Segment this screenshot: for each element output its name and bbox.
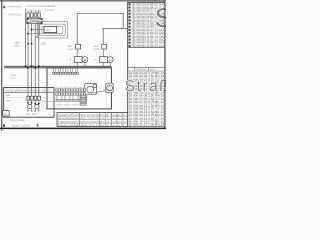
svg-text:GAA: GAA xyxy=(100,120,105,123)
PE rail box xyxy=(3,111,10,116)
svg-text:L1 L2 L3 N PE: L1 L2 L3 N PE xyxy=(26,5,45,8)
svg-text:1,2,3,N: 1,2,3,N xyxy=(45,9,54,12)
target label 1,2,3,N xyxy=(45,9,54,12)
svg-text:-6M1: -6M1 xyxy=(93,45,99,48)
margin mark xyxy=(3,124,5,127)
terminal comb strip xyxy=(53,68,79,75)
svg-text:-1W2: -1W2 xyxy=(40,43,47,46)
svg-text:er: er xyxy=(118,124,120,127)
device tag -Q1 xyxy=(27,10,42,13)
svg-text:2,2kW: 2,2kW xyxy=(93,48,100,51)
note text row 1 xyxy=(10,119,25,122)
suppression filter box xyxy=(44,26,57,32)
svg-text:Straße: Straße xyxy=(125,78,166,95)
gearbox stack xyxy=(80,95,87,105)
location label =GAA+SSV xyxy=(8,6,22,9)
svg-text:Bearb. 12.03.04: Bearb. 12.03.04 xyxy=(12,124,30,127)
wire stubs to motors xyxy=(28,100,39,105)
drawing frame xyxy=(0,0,166,131)
contactor row xyxy=(27,96,41,100)
svg-text:PE: PE xyxy=(4,113,8,116)
wire PE xyxy=(25,9,27,67)
svg-text:SCHALTSCHRANK +GAA.SV1 / FELD: SCHALTSCHRANK +GAA.SV1 / FELD 2 xyxy=(5,89,52,92)
contact row K1 xyxy=(27,11,41,17)
loop wiring xyxy=(28,22,68,38)
svg-text:=GAA+SSV: =GAA+SSV xyxy=(8,6,22,9)
svg-text:-6: -6 xyxy=(94,59,97,62)
parts list table (right) xyxy=(128,2,165,126)
svg-text:1 2 3 4 5 6 7 8 9 10 11: 1 2 3 4 5 6 7 8 9 10 11 xyxy=(56,86,87,89)
svg-text:4x2,5: 4x2,5 xyxy=(14,45,20,48)
wire L3 xyxy=(34,24,36,97)
watermark Stra xyxy=(125,78,181,95)
label -6M1 xyxy=(93,45,100,51)
note text row 2 xyxy=(12,124,30,127)
cable list rows lower xyxy=(128,71,165,127)
svg-text:Zeichn. 10.406: Zeichn. 10.406 xyxy=(58,124,79,127)
bus line 2 xyxy=(4,67,111,69)
conveyor roller right xyxy=(106,83,113,92)
svg-text:Datum Name: Datum Name xyxy=(10,119,25,122)
motor starter 5Q1 xyxy=(76,44,81,56)
conveyor roller left xyxy=(85,83,97,94)
motor M2 xyxy=(35,104,39,108)
svg-text:pr: pr xyxy=(118,117,120,120)
title block table xyxy=(57,113,128,127)
bus junction dots xyxy=(25,65,40,69)
bus line 1 xyxy=(4,65,111,67)
terminal pin labels xyxy=(26,5,45,8)
svg-text:4B2: 4B2 xyxy=(46,29,51,32)
svg-text:Rv.B: Rv.B xyxy=(112,120,117,123)
svg-text:-5M1: -5M1 xyxy=(67,45,73,48)
terminal square rows xyxy=(56,89,86,95)
junction dots motors xyxy=(27,102,40,105)
drive unit 5A1 xyxy=(69,57,88,63)
watermark letter S xyxy=(155,3,173,33)
wire N xyxy=(38,24,40,97)
svg-text:-2X1 -2X2 -2X3 -2X4: -2X1 -2X2 -2X3 -2X4 xyxy=(56,104,86,107)
svg-text:=GAA+SV1: =GAA+SV1 xyxy=(8,14,22,17)
label -5M1 xyxy=(67,45,74,51)
target label +GAA-X1 xyxy=(44,5,56,8)
wire L1 xyxy=(27,24,29,97)
wire to 5M1 xyxy=(77,13,127,49)
device drop wires xyxy=(77,63,110,67)
wire L2 xyxy=(31,24,33,97)
mounting brackets xyxy=(56,95,86,101)
svg-text:-1M1: -1M1 xyxy=(5,94,11,97)
cable label -1W2 xyxy=(40,43,47,46)
motor starter 6Q1 xyxy=(102,44,107,56)
machine enclosure box xyxy=(47,68,111,109)
belt line xyxy=(94,91,107,93)
svg-text:S: S xyxy=(155,3,166,33)
svg-text:-2W1: -2W1 xyxy=(10,74,17,77)
terminal numbers row xyxy=(56,86,87,89)
parts list rows upper xyxy=(128,2,165,48)
svg-text:-1M2: -1M2 xyxy=(5,99,11,102)
svg-text:+GAA-X1: +GAA-X1 xyxy=(44,5,56,8)
page index mark xyxy=(3,6,5,9)
cable label -1W1 xyxy=(14,42,21,48)
svg-text:-1W1: -1W1 xyxy=(14,42,21,45)
wire ends xyxy=(27,109,39,111)
parts list mid separator xyxy=(128,47,165,71)
terminal block X1 hatched xyxy=(27,18,43,24)
location label =GAA+SV1 xyxy=(8,14,22,17)
svg-text:-1M1 -1M2: -1M1 -1M2 xyxy=(25,113,37,116)
motor labels xyxy=(25,113,37,116)
motor M1 xyxy=(28,104,32,108)
junction dots loop xyxy=(27,29,32,45)
svg-text:-1Q1 -1K1: -1Q1 -1K1 xyxy=(27,10,42,13)
svg-text:Orig. Ers. f.: Orig. Ers. f. xyxy=(81,124,99,127)
panel enclosure table xyxy=(4,88,54,118)
svg-text:1,3kW: 1,3kW xyxy=(67,48,74,51)
mark 2 xyxy=(37,124,39,127)
drive unit 6A1 xyxy=(94,57,113,63)
cable label -2W1 xyxy=(10,74,17,80)
text under brackets xyxy=(56,104,86,107)
svg-text:-5: -5 xyxy=(69,59,72,62)
svg-text:4x1,5: 4x1,5 xyxy=(10,77,16,80)
